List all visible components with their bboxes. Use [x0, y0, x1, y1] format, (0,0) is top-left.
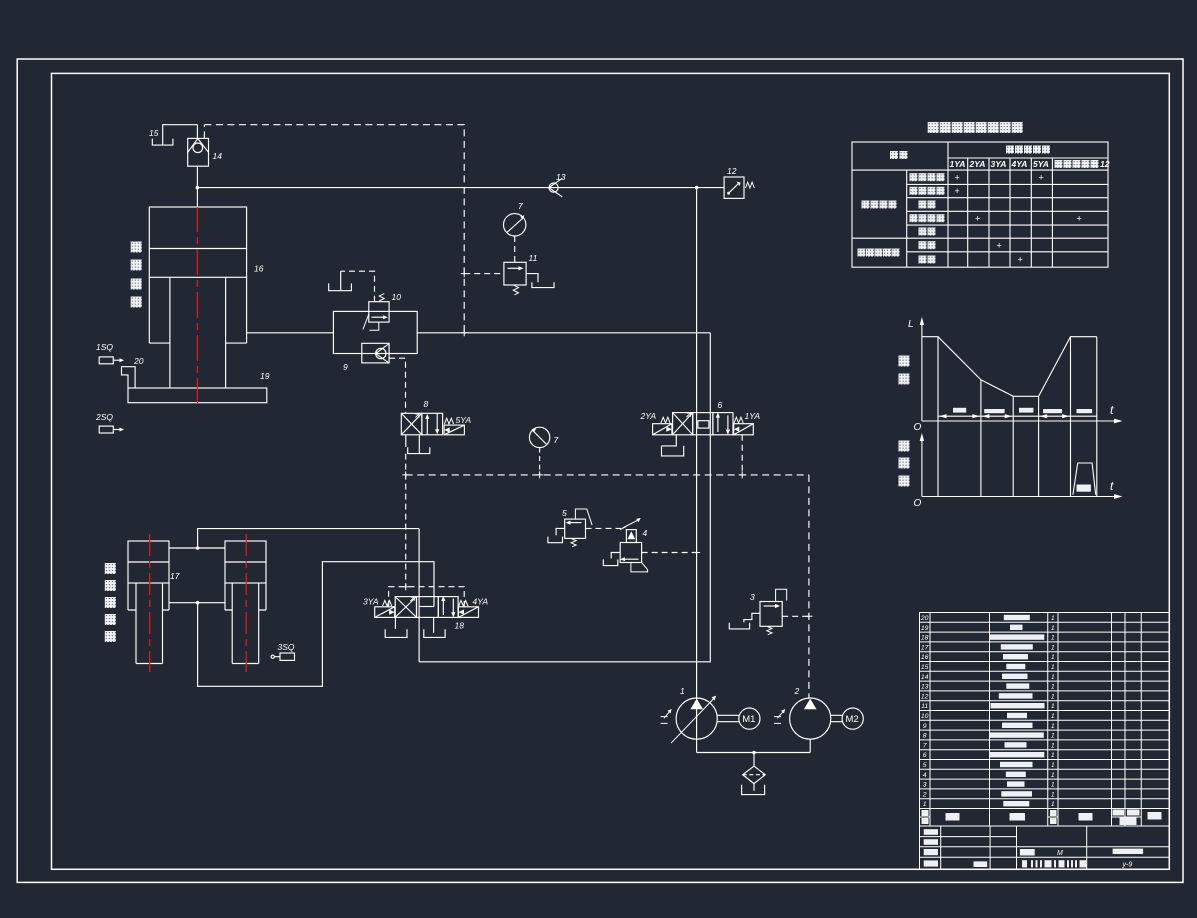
table header CJK texts — [890, 146, 1099, 169]
wire valve18 A-line vertical — [418, 529, 420, 662]
svg-text:+: + — [1039, 173, 1044, 183]
svg-text:y-9: y-9 — [1122, 861, 1133, 868]
solenoid valve 6 — [653, 412, 754, 434]
graph side labels CJK — [899, 356, 910, 487]
svg-text:18: 18 — [455, 621, 465, 631]
svg-text:M2: M2 — [846, 714, 859, 725]
svg-text:M: M — [1057, 850, 1063, 857]
svg-text:2SQ: 2SQ — [95, 412, 113, 422]
svg-text:3: 3 — [923, 782, 927, 789]
component number labels — [95, 128, 800, 696]
centerline main cylinder (red) — [196, 206, 198, 407]
svg-text:11: 11 — [921, 703, 928, 710]
svg-text:+: + — [997, 241, 1002, 251]
sequence table title CJK — [928, 122, 1023, 133]
valve 18 pilot frame (dashed) — [389, 587, 465, 607]
svg-text:12: 12 — [921, 693, 929, 700]
svg-text:15: 15 — [149, 128, 159, 138]
node junction at cylinder top — [196, 186, 200, 190]
svg-text:1: 1 — [1051, 664, 1055, 671]
svg-text:O: O — [914, 498, 922, 509]
wire pump outlet manifold — [697, 739, 811, 752]
table YA column headers — [950, 159, 1110, 169]
check valve in block 9 — [362, 343, 389, 363]
svg-text:1: 1 — [1051, 654, 1055, 661]
wire gauge 7 middle to manifold (dashed) — [539, 448, 541, 475]
svg-text:L: L — [908, 319, 914, 330]
valve 8 tank port — [406, 435, 430, 454]
wire valve 11 pilot (dashed) — [464, 273, 504, 275]
demold cylinder 17 right — [225, 541, 266, 664]
relief valve 10 — [363, 294, 389, 331]
parts list header inner lines — [920, 816, 1142, 818]
parts list table grid — [920, 613, 1170, 827]
main cylinder 16 body — [149, 207, 246, 388]
check valve 13 — [549, 178, 563, 197]
svg-text:+: + — [1018, 255, 1023, 265]
svg-text:12: 12 — [1100, 159, 1110, 169]
limit switch 1SQ — [99, 357, 124, 364]
pilot line from valve 14 to manifold (dashed) — [204, 125, 464, 333]
pilot manifold horizontal (dashed) — [406, 474, 809, 476]
svg-text:13: 13 — [921, 684, 929, 691]
svg-text:1: 1 — [1051, 674, 1055, 681]
filter — [743, 753, 766, 791]
svg-text:4: 4 — [923, 772, 927, 779]
limit switch 2SQ — [99, 426, 124, 433]
wire branch down to valve 6 and valve 18 return — [419, 333, 710, 662]
solenoid valve 18 — [375, 596, 479, 618]
pilot wire check9 to valve 8 (dashed) — [389, 358, 405, 413]
wire pump line vertical — [696, 188, 698, 753]
svg-text:3SQ: 3SQ — [278, 642, 295, 652]
svg-text:5YA: 5YA — [456, 415, 472, 425]
title block small texts — [1057, 850, 1132, 869]
svg-text:18: 18 — [921, 635, 929, 642]
svg-text:1: 1 — [1051, 703, 1055, 710]
svg-text:14: 14 — [213, 151, 223, 161]
svg-text:1: 1 — [1051, 742, 1055, 749]
svg-text:5: 5 — [562, 508, 567, 518]
svg-text:17: 17 — [921, 644, 929, 651]
svg-text:4: 4 — [643, 528, 648, 538]
svg-text:+: + — [975, 214, 980, 224]
table row label CJK: main cylinder rows — [858, 173, 945, 263]
pilot drop below valve 8 (dashed) — [405, 454, 407, 587]
main cylinder base plate 19 — [128, 388, 267, 403]
svg-text:1: 1 — [923, 801, 927, 808]
graph upper t axis — [922, 420, 1117, 422]
sequence table grid — [852, 142, 1108, 267]
svg-text:6: 6 — [718, 400, 723, 410]
graph axis labels — [908, 319, 1114, 509]
svg-text:M1: M1 — [742, 714, 755, 725]
svg-text:6: 6 — [923, 752, 927, 759]
pressure gauge 7 middle — [529, 427, 549, 447]
svg-text:13: 13 — [556, 172, 566, 182]
parts list qty column — [1051, 615, 1055, 808]
graph lower axis — [921, 438, 923, 497]
svg-text:1SQ: 1SQ — [96, 342, 113, 352]
svg-text:15: 15 — [921, 664, 929, 671]
pump 2 fixed — [774, 698, 842, 739]
bracket 20 — [122, 367, 136, 388]
svg-text:3: 3 — [750, 592, 755, 602]
svg-text:1: 1 — [680, 686, 685, 696]
pump 1 variable — [661, 696, 739, 743]
svg-text:12: 12 — [727, 166, 737, 176]
node cross pilot/valve11 — [461, 270, 468, 277]
svg-text:1: 1 — [1051, 684, 1055, 691]
demold cylinder 17 left — [128, 541, 169, 664]
motor M1 — [739, 708, 760, 729]
graph baseline with interval arrows — [938, 415, 1097, 417]
svg-text:11: 11 — [529, 253, 538, 263]
svg-text:+: + — [1077, 214, 1082, 224]
pilot drop to pump 2 (dashed) — [808, 475, 810, 698]
node cross pilot tap on main branch — [461, 329, 468, 336]
wire main pressure line — [197, 187, 724, 189]
valve 18 tank ports — [385, 617, 407, 637]
wire 14 to top line — [196, 125, 198, 139]
valve 6 pilot drop 1YA (dashed) — [741, 435, 743, 475]
motor labels — [742, 714, 859, 725]
svg-text:3YA: 3YA — [991, 159, 1007, 169]
svg-text:1YA: 1YA — [745, 411, 761, 421]
svg-text:1: 1 — [1051, 635, 1055, 642]
pressure relay 12 — [724, 177, 754, 198]
svg-text:1: 1 — [1051, 801, 1055, 808]
graph phase label blocks — [953, 408, 1092, 492]
bracket 15 — [152, 125, 197, 145]
svg-text:O: O — [914, 422, 922, 433]
title block grid — [920, 826, 1170, 869]
svg-text:+: + — [955, 186, 960, 196]
relief valve 3 — [729, 589, 786, 634]
svg-text:8: 8 — [923, 733, 927, 740]
svg-text:1: 1 — [1051, 615, 1055, 622]
label main cylinder (vertical CJK) — [131, 242, 142, 308]
wire valve 5 to valve 4 (dashed) — [586, 527, 622, 529]
wire demold rod side — [169, 602, 225, 604]
displacement graph — [920, 317, 1123, 499]
node cross at manifold left — [402, 471, 409, 478]
svg-text:1: 1 — [1051, 791, 1055, 798]
svg-text:5: 5 — [923, 762, 927, 769]
svg-text:1: 1 — [1051, 693, 1055, 700]
svg-text:1: 1 — [1051, 762, 1055, 769]
solenoid valve 8 — [401, 413, 464, 435]
svg-text:10: 10 — [392, 292, 402, 302]
tank below filter — [742, 785, 765, 795]
svg-text:20: 20 — [920, 615, 929, 622]
graph demold stroke trapezoid — [1073, 463, 1096, 495]
svg-text:4YA: 4YA — [1011, 159, 1028, 169]
valve 6 tank port — [662, 435, 684, 456]
svg-text:3YA: 3YA — [363, 597, 379, 607]
limit switch 3SQ — [271, 653, 294, 660]
pilot drain of valve 10 (dashed + tank) — [341, 271, 375, 302]
svg-text:+: + — [955, 173, 960, 183]
svg-text:1: 1 — [1051, 625, 1055, 632]
svg-text:2: 2 — [794, 686, 800, 696]
svg-text:20: 20 — [133, 356, 144, 366]
graph curve main cylinder — [922, 337, 1097, 397]
sequence valve 5 — [548, 509, 592, 547]
parts list header row blocks — [922, 810, 1162, 826]
svg-text:7: 7 — [554, 435, 559, 445]
balance valve block 9 loop — [333, 311, 417, 353]
motor M2 — [842, 708, 863, 729]
svg-text:17: 17 — [170, 571, 180, 581]
graph upper L axis — [921, 322, 923, 421]
svg-text:7: 7 — [518, 201, 523, 211]
title block text blocks — [924, 829, 1143, 867]
svg-text:14: 14 — [921, 674, 929, 681]
svg-text:1: 1 — [1051, 713, 1055, 720]
label demold cylinder (vertical CJK) — [105, 563, 116, 642]
reducing valve 4 — [603, 518, 647, 572]
svg-text:19: 19 — [260, 371, 270, 381]
wire gauge 7 to valve 11 (dashed) — [514, 236, 516, 262]
svg-text:1: 1 — [1051, 782, 1055, 789]
svg-text:1: 1 — [1051, 644, 1055, 651]
svg-text:16: 16 — [254, 264, 264, 274]
svg-text:7: 7 — [923, 742, 927, 749]
wire 14 to cylinder — [196, 166, 198, 207]
table plus marks — [955, 173, 1082, 265]
svg-text:1: 1 — [1051, 733, 1055, 740]
svg-text:1YA: 1YA — [950, 159, 966, 169]
svg-text:9: 9 — [343, 362, 348, 372]
svg-text:1: 1 — [1051, 752, 1055, 759]
parts list row numbers — [920, 615, 929, 808]
prefill valve 14 — [188, 138, 209, 166]
graph phase separators — [938, 337, 1097, 497]
svg-text:1: 1 — [1051, 772, 1055, 779]
svg-text:2: 2 — [922, 791, 927, 798]
wire block 9 to main branch — [417, 332, 710, 334]
gauge isolator valve 11 — [504, 262, 554, 295]
wire cylinder to block 9 — [247, 332, 334, 334]
pressure gauge 7 upper — [504, 214, 526, 236]
svg-text:9: 9 — [923, 723, 927, 730]
svg-text:1: 1 — [1051, 723, 1055, 730]
svg-text:2YA: 2YA — [969, 159, 986, 169]
svg-text:2YA: 2YA — [640, 411, 657, 421]
svg-text:19: 19 — [921, 625, 929, 632]
svg-text:5YA: 5YA — [1033, 159, 1049, 169]
wire valve 3 to pilot drop (dashed) — [782, 615, 809, 617]
svg-text:4YA: 4YA — [473, 597, 489, 607]
wire valve 4 to pump line (dashed) — [642, 552, 697, 554]
svg-text:8: 8 — [424, 399, 429, 409]
parts list name blocks — [990, 615, 1045, 807]
centerline demold left (red) — [149, 534, 151, 672]
wire demold cap side — [169, 547, 225, 549]
node junction main line right — [695, 186, 699, 190]
svg-text:16: 16 — [921, 654, 929, 661]
svg-text:10: 10 — [921, 713, 929, 720]
centerline demold right (red) — [245, 534, 247, 672]
